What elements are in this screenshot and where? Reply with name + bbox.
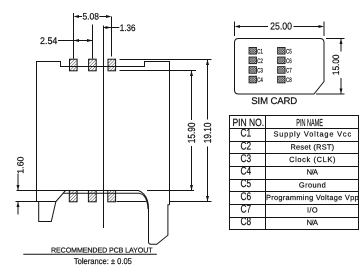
svg-text:C6: C6: [241, 191, 252, 203]
svg-text:5.08: 5.08: [82, 12, 99, 22]
svg-text:I/O: I/O: [307, 206, 318, 215]
svg-text:Supply Voltage Vcc: Supply Voltage Vcc: [273, 130, 351, 139]
svg-text:19.10: 19.10: [203, 122, 214, 143]
svg-text:C1: C1: [241, 128, 252, 140]
svg-text:C8: C8: [286, 77, 292, 84]
svg-text:C2: C2: [241, 140, 252, 152]
svg-text:Tolerance: ± 0.05: Tolerance: ± 0.05: [74, 256, 132, 266]
svg-text:1.36: 1.36: [120, 22, 136, 33]
svg-text:C5: C5: [286, 48, 292, 55]
svg-text:C3: C3: [241, 153, 252, 165]
svg-text:Clock (CLK): Clock (CLK): [289, 155, 335, 164]
svg-text:SIM CARD: SIM CARD: [251, 96, 297, 107]
svg-text:C2: C2: [257, 58, 263, 65]
svg-text:N/A: N/A: [307, 168, 318, 177]
svg-text:C1: C1: [257, 48, 263, 55]
svg-text:C5: C5: [241, 178, 252, 190]
svg-text:C6: C6: [286, 58, 292, 65]
svg-text:RECOMMENDED PCB LAYOUT: RECOMMENDED PCB LAYOUT: [51, 247, 153, 255]
svg-text:C7: C7: [286, 68, 292, 75]
svg-text:C4: C4: [257, 77, 263, 84]
svg-text:C8: C8: [241, 216, 252, 228]
svg-text:2.54: 2.54: [40, 36, 58, 47]
svg-text:1.60: 1.60: [15, 157, 25, 174]
svg-text:25.00: 25.00: [270, 21, 292, 32]
svg-text:PIN NAME: PIN NAME: [296, 118, 323, 129]
svg-text:C4: C4: [241, 166, 252, 178]
svg-text:Ground: Ground: [299, 180, 326, 189]
svg-text:15.00: 15.00: [330, 55, 341, 76]
svg-text:N/A: N/A: [307, 218, 318, 227]
svg-text:Reset (RST): Reset (RST): [290, 142, 334, 151]
svg-text:C3: C3: [257, 68, 263, 75]
svg-text:15.90: 15.90: [187, 122, 198, 143]
svg-text:Programming Voltage Vpp: Programming Voltage Vpp: [266, 193, 359, 202]
svg-text:C7: C7: [241, 204, 252, 216]
